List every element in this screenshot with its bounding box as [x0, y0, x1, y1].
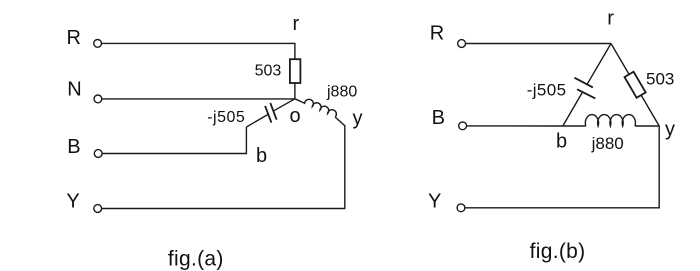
- svg-text:-j505: -j505: [527, 81, 567, 100]
- svg-text:R: R: [67, 27, 81, 49]
- svg-text:b: b: [556, 131, 567, 153]
- svg-text:Y: Y: [66, 191, 79, 213]
- svg-text:R: R: [430, 23, 444, 45]
- svg-text:b: b: [256, 145, 267, 167]
- svg-text:fig.(a): fig.(a): [168, 247, 224, 270]
- svg-text:B: B: [432, 107, 445, 129]
- svg-text:503: 503: [646, 69, 674, 88]
- svg-text:r: r: [293, 13, 300, 35]
- svg-text:fig.(b): fig.(b): [530, 240, 586, 263]
- svg-text:N: N: [67, 79, 81, 101]
- svg-text:y: y: [665, 118, 675, 140]
- svg-text:r: r: [607, 8, 614, 30]
- svg-text:Y: Y: [428, 191, 441, 213]
- svg-text:503: 503: [255, 63, 282, 80]
- svg-text:j880: j880: [326, 83, 357, 100]
- svg-text:-j505: -j505: [207, 109, 245, 126]
- svg-text:j880: j880: [591, 134, 624, 153]
- svg-text:B: B: [67, 136, 80, 158]
- svg-text:o: o: [290, 105, 301, 127]
- svg-text:y: y: [353, 107, 363, 129]
